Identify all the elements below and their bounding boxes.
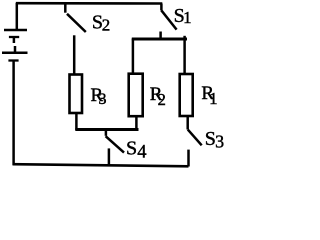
wire battery inter-cell stem upper <box>13 38 16 44</box>
label R3 <box>91 85 107 108</box>
label R1 <box>201 83 217 108</box>
wire top bus <box>16 2 163 5</box>
svg-text:S: S <box>126 138 137 160</box>
wire R2 top riser <box>132 39 135 74</box>
svg-text:1: 1 <box>183 8 192 27</box>
wire battery top lead <box>16 3 19 30</box>
svg-text:2: 2 <box>158 90 166 109</box>
wire mid node (S1 bottom to R1/R2 tops) <box>132 38 187 41</box>
resistor R2 <box>129 74 143 117</box>
svg-text:1: 1 <box>209 89 218 108</box>
wire R1 top riser <box>183 36 186 74</box>
wire R3 bottom to S4 node <box>75 114 78 131</box>
battery cell 2 long plate (+) <box>2 51 28 54</box>
wire bottom bus <box>13 164 189 166</box>
wire S2 to R3 <box>73 35 76 74</box>
svg-text:4: 4 <box>137 143 146 163</box>
resistor R1 <box>180 74 193 116</box>
svg-text:3: 3 <box>215 131 224 151</box>
wire R1 bottom to S3 <box>186 116 189 130</box>
switch S2 <box>65 3 86 32</box>
battery cell 2 short plate (-) <box>8 59 18 61</box>
label S1 <box>174 5 192 27</box>
label R2 <box>150 84 166 109</box>
wire S4 node (R3/R2 bottoms) <box>75 128 138 131</box>
switch S4 <box>106 130 124 166</box>
wire battery inter-cell stem lower <box>14 46 17 52</box>
label S2 <box>92 11 110 34</box>
wire R2 bottom to S4 node <box>135 117 138 130</box>
switch S3 <box>188 130 202 167</box>
svg-text:2: 2 <box>102 15 111 34</box>
battery cell 1 short plate (-) <box>9 36 19 38</box>
wire left vertical (battery - to bottom bus) <box>12 61 15 165</box>
battery cell 1 long plate (+) <box>4 29 27 32</box>
label S4 <box>126 138 147 163</box>
label S3 <box>205 128 224 151</box>
switch S1 <box>161 4 177 40</box>
resistor R3 <box>70 75 83 114</box>
svg-text:3: 3 <box>99 91 107 108</box>
